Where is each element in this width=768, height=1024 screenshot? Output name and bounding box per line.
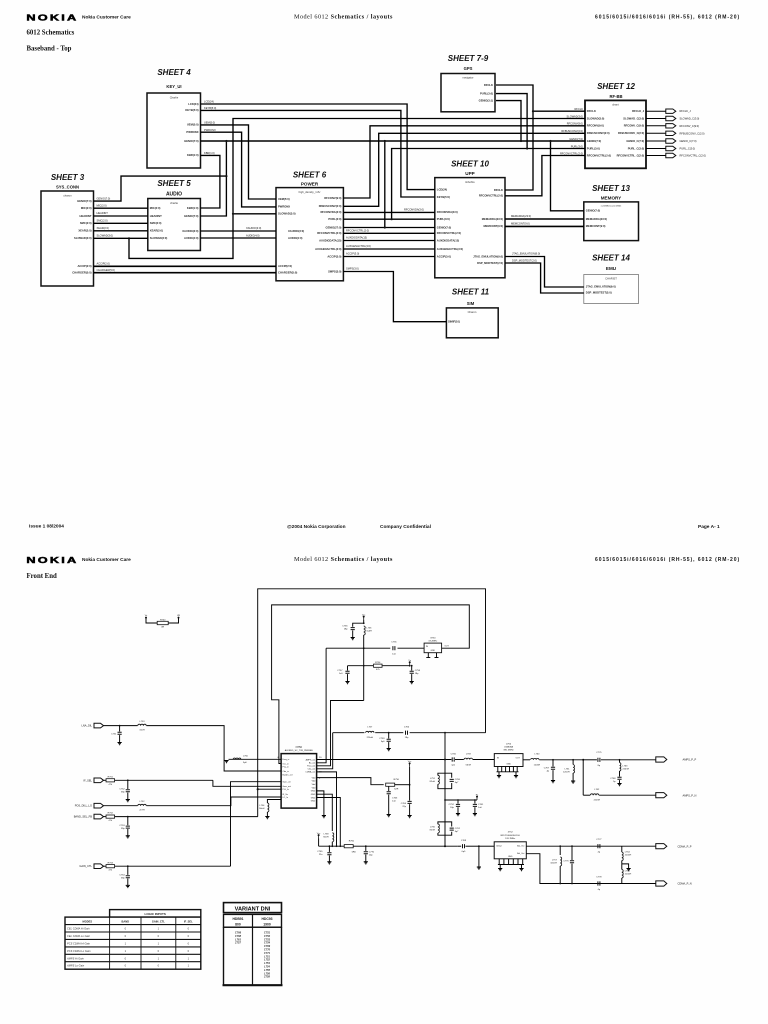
power Vx arrow xyxy=(409,663,411,666)
svg-text:PURL(3:0): PURL(3:0) xyxy=(571,144,583,148)
svg-text:GAIN_CTL: GAIN_CTL xyxy=(79,864,92,868)
svg-text:SLOWAD(3:0): SLOWAD(3:0) xyxy=(97,234,114,238)
inductor L761 shunt xyxy=(572,759,574,761)
svg-text:Company Confidential: Company Confidential xyxy=(380,524,431,530)
svg-text:Bal_Out: Bal_Out xyxy=(517,852,525,855)
svg-text:C761: C761 xyxy=(478,804,484,806)
svg-text:C768: C768 xyxy=(610,778,616,780)
svg-text:L764: L764 xyxy=(625,852,631,854)
svg-text:ACCIP(2:0): ACCIP(2:0) xyxy=(97,262,110,266)
wire SMPS POWER to SIM xyxy=(343,272,446,322)
wire GENIO to MEMORY xyxy=(551,141,584,211)
svg-text:GND: GND xyxy=(311,797,316,799)
svg-text:L755: L755 xyxy=(264,968,270,972)
wire MIC(2:0) SYS_CONN to AUDIO xyxy=(94,207,148,209)
svg-text:L760: L760 xyxy=(534,754,540,756)
svg-text:R750: R750 xyxy=(160,620,166,622)
svg-text:RFCONVCTRL(2:0): RFCONVCTRL(2:0) xyxy=(437,231,461,235)
svg-text:126.7MHz: 126.7MHz xyxy=(505,838,515,840)
svg-text:AMPS_out: AMPS_out xyxy=(306,758,316,761)
svg-text:C771: C771 xyxy=(264,951,271,955)
svg-text:GENIO_C(7:0): GENIO_C(7:0) xyxy=(626,139,644,143)
svg-text:SLOWAD(3:0): SLOWAD(3:0) xyxy=(567,114,584,118)
svg-text:UEM(5:0): UEM(5:0) xyxy=(187,123,199,127)
bus ACCIP(2:0) SYS_CONN to POWER xyxy=(94,265,277,267)
svg-text:B3572-B4609-K510: B3572-B4609-K510 xyxy=(501,835,521,837)
svg-text:SHEET 6: SHEET 6 xyxy=(293,171,327,180)
svg-text:GND: GND xyxy=(311,801,316,803)
inductor L752 2n7H xyxy=(138,804,146,805)
svg-text:GENIO(7:0): GENIO(7:0) xyxy=(586,209,600,213)
junction PURL GPS xyxy=(526,147,528,149)
block AUDIO (sheet 5) xyxy=(148,199,201,251)
connector output CDMA_P_P xyxy=(656,844,667,849)
balun L751 C760 parallel upper xyxy=(438,773,445,775)
svg-text:POWER: POWER xyxy=(301,182,319,187)
svg-text:AUDIO(4:0): AUDIO(4:0) xyxy=(288,236,302,240)
svg-text:ACCIP(3:0): ACCIP(3:0) xyxy=(437,254,451,258)
svg-text:KBR(1:0): KBR(1:0) xyxy=(187,153,199,157)
SAW filter Z752 xyxy=(494,842,526,859)
svg-text:Z758: Z758 xyxy=(263,975,270,979)
svg-text:UEM(5:0): UEM(5:0) xyxy=(204,121,215,125)
svg-text:LNA_DIL: LNA_DIL xyxy=(81,724,92,728)
svg-text:CHARGER(5:0): CHARGER(5:0) xyxy=(278,271,297,275)
svg-text:82nH: 82nH xyxy=(430,830,436,832)
resistor R750 top-left xyxy=(146,618,157,623)
wire HEADINT SYS_CONN to AUDIO xyxy=(94,215,148,217)
svg-text:LTA808A: LTA808A xyxy=(504,746,513,749)
svg-text:SIM: SIM xyxy=(467,301,475,306)
svg-text:RFBUSCONV(2:0): RFBUSCONV(2:0) xyxy=(319,204,342,208)
junction stub rail xyxy=(339,845,341,847)
wire bias rail lower xyxy=(319,845,345,847)
power Vx on balun xyxy=(476,797,478,800)
svg-text:SLOWAD(3:0): SLOWAD(3:0) xyxy=(74,236,92,240)
svg-text:GND: GND xyxy=(311,791,316,793)
svg-text:C756: C756 xyxy=(342,626,348,628)
svg-text:Cba_out: Cba_out xyxy=(308,768,316,771)
svg-text:C764: C764 xyxy=(401,803,407,805)
svg-text:C751: C751 xyxy=(111,734,117,736)
svg-text:L751: L751 xyxy=(264,954,270,958)
svg-text:HDC93: HDC93 xyxy=(261,917,272,921)
connector output RFCONV_C(9:0) xyxy=(666,124,676,128)
inductor L753b 120nH series xyxy=(531,758,539,759)
junction SLOWAD branch xyxy=(128,237,130,239)
svg-text:Charon: Charon xyxy=(468,310,477,314)
svg-text:C752: C752 xyxy=(449,804,455,806)
wire BAND_SEL_FB branch to IC xyxy=(258,788,281,790)
svg-text:CEL CDMA Lo Gain: CEL CDMA Lo Gain xyxy=(67,934,91,938)
capacitor C769 series CDMA xyxy=(458,845,462,847)
power Vcc oscillator supply xyxy=(363,617,365,620)
svg-text:XAUDIO(3:0): XAUDIO(3:0) xyxy=(288,229,304,233)
svg-text:IF_SEL: IF_SEL xyxy=(83,778,92,782)
svg-text:C751: C751 xyxy=(264,931,271,935)
svg-text:PURL_C(3:0): PURL_C(3:0) xyxy=(680,147,696,151)
svg-text:C760: C760 xyxy=(455,779,461,781)
svg-text:JTAG_EMULATION(9:0): JTAG_EMULATION(9:0) xyxy=(473,254,503,258)
svg-text:Bo_out: Bo_out xyxy=(309,762,316,765)
svg-text:120nH: 120nH xyxy=(563,772,570,774)
svg-text:RFCONVCTRL(2:0): RFCONVCTRL(2:0) xyxy=(346,228,369,232)
wire MEMADDA UPP to MEMORY xyxy=(505,218,584,220)
svg-text:Vdd: Vdd xyxy=(312,777,316,779)
wire GAIN_CTL to IC xyxy=(231,782,282,867)
svg-text:L752: L752 xyxy=(140,801,146,803)
wire CDMA balanced outputs xyxy=(526,845,655,847)
SAW filter Z750 881.5MHz xyxy=(494,754,523,767)
svg-text:XAUDIO(3:0): XAUDIO(3:0) xyxy=(246,226,261,230)
wire GND stub 1 xyxy=(317,791,324,816)
svg-text:NOKIA: NOKIA xyxy=(26,13,78,23)
svg-text:BAND_SEL_FB: BAND_SEL_FB xyxy=(74,815,93,819)
wire GENIO riser from SYS_CONN xyxy=(94,141,227,201)
wire LCD(24) KEY_UI to UPP xyxy=(201,104,435,190)
svg-text:Model 6012 Schematics / layout: Model 6012 Schematics / layouts xyxy=(294,556,393,563)
svg-text:C777: C777 xyxy=(596,839,602,841)
svg-text:KEYB(5:0): KEYB(5:0) xyxy=(437,195,450,199)
svg-text:Issue 1 08/2004: Issue 1 08/2004 xyxy=(29,524,64,530)
svg-text:Z757: Z757 xyxy=(234,941,241,945)
svg-text:GENIO_C(7:0): GENIO_C(7:0) xyxy=(680,139,697,143)
block RF-BB (sheet 12) xyxy=(585,100,646,168)
svg-text:ACCIP(2:0): ACCIP(2:0) xyxy=(77,264,91,268)
svg-text:220nH: 220nH xyxy=(623,769,630,771)
svg-text:C759: C759 xyxy=(379,738,385,740)
svg-text:RFCLK: RFCLK xyxy=(587,109,596,113)
IC N750 ALFRED_SC_TX8_PBFREE xyxy=(281,754,317,809)
wire CDMA_out to filter xyxy=(317,772,337,846)
svg-text:Guar_out: Guar_out xyxy=(283,785,292,788)
svg-text:L757: L757 xyxy=(552,860,558,862)
wire RFCONVDA(3:0) POWER to UPP xyxy=(343,211,434,213)
svg-text:PCS CDMA Hi Gain: PCS CDMA Hi Gain xyxy=(67,941,91,945)
svg-text:UPP: UPP xyxy=(465,171,474,176)
svg-text:PWRONX: PWRONX xyxy=(278,205,290,209)
svg-text:JTAG_EMULATION(9:0): JTAG_EMULATION(9:0) xyxy=(512,252,540,256)
block GPS (sheet 7-9) xyxy=(441,74,495,112)
svg-text:L754: L754 xyxy=(264,965,270,969)
svg-text:AUXDIGDATA(15): AUXDIGDATA(15) xyxy=(437,238,459,242)
svg-text:SLOWAD(3:0): SLOWAD(3:0) xyxy=(278,212,296,216)
junction AUDIO GENIO xyxy=(225,175,227,177)
wire GENIO POWER to UPP xyxy=(343,227,434,229)
wire RF-BB output GENIO_C(7:0) xyxy=(646,140,666,142)
svg-text:Nokia Customer Care: Nokia Customer Care xyxy=(82,15,131,21)
wire bias to AMPS junction xyxy=(444,732,446,734)
svg-text:XEAR(2:0): XEAR(2:0) xyxy=(78,229,91,233)
svg-text:VARIANT DNI: VARIANT DNI xyxy=(235,907,271,913)
svg-text:IF_SEL: IF_SEL xyxy=(184,920,193,924)
connector output AMPS_P_P xyxy=(656,757,667,762)
svg-text:GENIO(7:0): GENIO(7:0) xyxy=(569,137,583,141)
svg-text:220nH: 220nH xyxy=(625,855,632,857)
svg-text:SHEET 7-9: SHEET 7-9 xyxy=(448,54,489,63)
svg-text:R750: R750 xyxy=(349,841,355,843)
svg-text:RFCONVCTRL(2:0): RFCONVCTRL(2:0) xyxy=(587,153,611,157)
svg-text:C776: C776 xyxy=(563,861,569,863)
svg-text:C769: C769 xyxy=(264,944,271,948)
svg-text:Cba_in: Cba_in xyxy=(283,771,289,773)
svg-text:6015/6015i/6016/6016i (RH-55),: 6015/6015i/6016/6016i (RH-55), 6012 (RM-… xyxy=(595,557,740,563)
svg-text:GENIO(7:0): GENIO(7:0) xyxy=(184,214,198,218)
wire RFBUSCONV(2:0) POWER to RF-BB xyxy=(343,133,585,206)
svg-text:LOGIC INPUTS: LOGIC INPUTS xyxy=(145,912,166,916)
svg-text:C750: C750 xyxy=(404,726,410,728)
block SIM (sheet 11) xyxy=(446,308,498,338)
wire Xo_out feedback to oscillator xyxy=(317,648,327,763)
svg-text:RFCONV(9:0): RFCONV(9:0) xyxy=(324,196,341,200)
capacitor C766 series AMPS xyxy=(452,757,454,761)
svg-text:L756: L756 xyxy=(264,971,270,975)
wire KEYB(5:0) KEY_UI to UPP xyxy=(201,110,435,197)
wire KBR(1:0) KEY_UI to AUDIO xyxy=(200,155,220,208)
capacitor C765 shunt xyxy=(329,845,331,847)
wire PURL(3:0) POWER to UPP xyxy=(343,218,434,220)
junction Vcc feed R754 xyxy=(363,665,365,667)
svg-text:Charlie: Charlie xyxy=(170,96,179,100)
svg-text:62R: 62R xyxy=(394,789,398,791)
wire RF-BB output SLOWAD_C(3:0) xyxy=(646,118,666,120)
svg-text:GENIO(7:0): GENIO(7:0) xyxy=(437,225,451,229)
junction GENIO riser mid bottom xyxy=(384,226,386,228)
svg-text:KBR(1:0): KBR(1:0) xyxy=(187,206,199,210)
svg-text:100nH: 100nH xyxy=(550,863,557,865)
svg-text:charon: charon xyxy=(63,194,72,198)
svg-text:CHARGER(5:0): CHARGER(5:0) xyxy=(72,271,91,275)
svg-text:MEMADDA(23:0): MEMADDA(23:0) xyxy=(586,217,607,221)
wire GND stub 2 with inductor L758 xyxy=(317,794,333,831)
svg-text:800: 800 xyxy=(235,923,241,927)
wire RF-BB output RFBUSCONV_C(2:0) xyxy=(646,132,666,134)
svg-text:Osc_in: Osc_in xyxy=(283,763,289,765)
svg-text:CHARGER(5:0): CHARGER(5:0) xyxy=(97,268,115,272)
svg-text:SYS_CONN: SYS_CONN xyxy=(56,185,79,190)
svg-text:AMPS_P_P: AMPS_P_P xyxy=(683,758,697,762)
balun mid node caps xyxy=(444,799,446,801)
svg-text:L753: L753 xyxy=(140,721,146,723)
connector output RFCONVCTRL_C(2:0) xyxy=(666,153,676,157)
wire RFCONVCTRL UPP to RF-BB xyxy=(505,156,585,196)
wire RF-BB output RFCONV_C(9:0) xyxy=(646,125,666,127)
resistor R753 47k xyxy=(106,865,115,868)
capacitor C778 series xyxy=(598,881,600,885)
capacitor C753 39p shunt xyxy=(127,816,129,818)
block MEMORY (sheet 13) xyxy=(584,202,639,241)
svg-text:HEADINT: HEADINT xyxy=(97,211,109,215)
svg-text:G750: G750 xyxy=(430,638,436,640)
wire GENIO AUDIO branch xyxy=(200,176,226,216)
svg-text:PURL(3:0): PURL(3:0) xyxy=(587,146,600,150)
svg-text:MEMADDA(23:0): MEMADDA(23:0) xyxy=(511,214,531,218)
svg-text:BandC_sel: BandC_sel xyxy=(283,774,293,776)
svg-text:@2004 Nokia Corporation: @2004 Nokia Corporation xyxy=(287,524,346,530)
svg-text:2n7H: 2n7H xyxy=(139,810,145,812)
svg-text:Model 6012 Schematics / layout: Model 6012 Schematics / layouts xyxy=(294,14,393,21)
bus CHARGER(5:0) SYS_CONN to POWER xyxy=(94,272,277,274)
wire POS_DILL_LO to IC xyxy=(147,797,282,806)
wire SLOWAD(3:0) SYS_CONN to AUDIO xyxy=(94,237,148,239)
svg-text:MODES: MODES xyxy=(83,920,93,924)
svg-text:SHEET 5: SHEET 5 xyxy=(157,179,191,188)
capacitor C751b 4p shunt xyxy=(552,759,554,761)
wire GENIO riser mid xyxy=(384,141,386,228)
svg-text:PURL(3:0): PURL(3:0) xyxy=(328,217,341,221)
wire filter out xyxy=(523,759,530,761)
svg-text:RFBUSCONV_C(2:0): RFBUSCONV_C(2:0) xyxy=(618,131,644,135)
svg-text:GENIO(7:0): GENIO(7:0) xyxy=(97,196,111,200)
svg-text:Z752: Z752 xyxy=(508,832,514,834)
resistor R751 47k xyxy=(106,779,115,782)
capacitor C759 shunt on bias line xyxy=(388,732,390,734)
junction L758 rail xyxy=(331,845,333,847)
filter Z750 ground comb xyxy=(497,767,499,772)
svg-text:C757: C757 xyxy=(337,670,343,672)
svg-text:Pout_out: Pout_out xyxy=(307,765,315,768)
wire RFCLK to RF-BB xyxy=(533,110,585,112)
wire PWRONX KEY_UI to POWER xyxy=(201,132,277,207)
svg-text:SHEET 12: SHEET 12 xyxy=(597,82,635,91)
svg-text:charlie: charlie xyxy=(170,201,178,205)
bias line with L757 C759 C750 xyxy=(333,732,365,734)
svg-text:SHEET 13: SHEET 13 xyxy=(592,184,630,193)
svg-text:RFCONVCTRL_C(2:0): RFCONVCTRL_C(2:0) xyxy=(617,153,645,157)
capacitor C757 to ground xyxy=(347,666,349,671)
svg-text:AUXGENACTRL(3:0): AUXGENACTRL(3:0) xyxy=(346,244,371,248)
svg-text:120nH: 120nH xyxy=(534,764,541,766)
svg-text:XEAR(2:0): XEAR(2:0) xyxy=(97,226,110,230)
connector output AMPS_P_N xyxy=(656,793,667,798)
svg-text:C769: C769 xyxy=(461,840,467,842)
svg-text:LCD(24): LCD(24) xyxy=(437,187,447,191)
svg-text:R756: R756 xyxy=(394,779,400,781)
svg-text:POS_DILL_LO: POS_DILL_LO xyxy=(75,804,92,808)
svg-text:L763: L763 xyxy=(623,766,629,768)
svg-text:C754: C754 xyxy=(119,874,125,876)
svg-text:MEMADDA(23:0): MEMADDA(23:0) xyxy=(482,217,503,221)
svg-text:Bal_Out: Bal_Out xyxy=(517,845,525,848)
svg-text:LO_In: LO_In xyxy=(283,797,288,799)
svg-text:C762: C762 xyxy=(455,828,461,830)
svg-text:C767: C767 xyxy=(544,767,550,769)
capacitor C751 shunt xyxy=(119,725,121,727)
svg-text:CEL CDMA Hi Gain: CEL CDMA Hi Gain xyxy=(67,927,90,931)
svg-text:C766: C766 xyxy=(451,753,457,755)
svg-text:KEYB(5:0): KEYB(5:0) xyxy=(204,106,216,110)
svg-text:19.2MHz: 19.2MHz xyxy=(428,641,437,643)
svg-text:KBR(1:0): KBR(1:0) xyxy=(204,151,215,155)
wire MEMCONT UPP to MEMORY xyxy=(505,225,584,227)
svg-text:R751: R751 xyxy=(108,776,114,778)
svg-text:AMPS_P_N: AMPS_P_N xyxy=(683,793,697,797)
svg-text:GPS: GPS xyxy=(464,66,473,71)
block EMU (sheet 14) xyxy=(584,275,639,304)
wire PURL GPS branch xyxy=(496,94,527,149)
inductor L753 15nH xyxy=(138,724,146,725)
block KEY_UI (sheet 4) xyxy=(147,93,201,168)
svg-text:C778: C778 xyxy=(596,876,602,878)
junction CDMA join xyxy=(444,845,446,847)
svg-text:L765: L765 xyxy=(625,871,631,873)
wire IF_SEL to IC xyxy=(213,780,281,786)
svg-text:L759: L759 xyxy=(466,753,472,755)
svg-text:RFBUSCONV(2:0): RFBUSCONV(2:0) xyxy=(561,129,583,133)
svg-text:AUXDIGDATA(15): AUXDIGDATA(15) xyxy=(346,236,367,240)
svg-text:ram8MbitLower2Mbit: ram8MbitLower2Mbit xyxy=(601,205,622,208)
inductor L756 5u6H xyxy=(364,626,366,635)
svg-text:MEMORY: MEMORY xyxy=(601,196,622,201)
svg-text:PCS CDMA Lo Gain: PCS CDMA Lo Gain xyxy=(67,949,91,953)
capacitor C766b to ground at R750 right xyxy=(365,845,367,847)
svg-text:CDMA_P_P: CDMA_P_P xyxy=(678,844,692,848)
wire Pout_out riser to Vcc feed xyxy=(317,701,364,766)
svg-text:L757: L757 xyxy=(367,726,373,728)
svg-text:SLOWAD(3:0): SLOWAD(3:0) xyxy=(150,236,168,240)
svg-text:UEM(5:0): UEM(5:0) xyxy=(278,197,290,201)
junction GENIO riser mid top xyxy=(384,140,386,142)
wire UEM(5:0) KEY_UI to POWER xyxy=(201,125,277,199)
svg-text:15nH: 15nH xyxy=(139,729,145,731)
svg-text:AUDIO: AUDIO xyxy=(166,192,182,198)
capacitor C763 shunt xyxy=(388,786,390,791)
svg-text:RFCONVCTRL(2:0): RFCONVCTRL(2:0) xyxy=(479,194,503,198)
svg-text:Vdd: Vdd xyxy=(312,787,316,789)
balun L755 C762 parallel lower xyxy=(438,822,445,824)
wire LNA to IC xyxy=(147,726,282,771)
svg-text:C770: C770 xyxy=(264,948,271,952)
svg-text:XAUDIO(3:0): XAUDIO(3:0) xyxy=(182,229,198,233)
svg-text:GND: GND xyxy=(506,764,511,766)
svg-text:EMU: EMU xyxy=(606,266,617,271)
connector output RFCLK_J xyxy=(666,109,676,113)
svg-text:HDB91: HDB91 xyxy=(232,917,243,921)
svg-text:C755: C755 xyxy=(391,642,397,644)
svg-text:Gain_cnt: Gain_cnt xyxy=(283,781,291,784)
junction BAND_SEL_FB branch xyxy=(257,788,259,790)
capacitor C758 to ground xyxy=(411,666,413,671)
svg-text:MIC(2:0): MIC(2:0) xyxy=(97,203,107,207)
wire RF-BB output RFCLK_J xyxy=(646,110,666,112)
svg-text:C763: C763 xyxy=(392,798,398,800)
power Vcc lower cluster xyxy=(318,836,320,839)
svg-text:NOKIA: NOKIA xyxy=(26,556,78,566)
svg-text:GENIO(3:1): GENIO(3:1) xyxy=(479,98,493,102)
junction AMPS bias xyxy=(444,759,446,761)
svg-text:DSP_MODTEST(2:0): DSP_MODTEST(2:0) xyxy=(477,261,503,265)
wire AUXDIGDATA POWER to UPP xyxy=(343,240,434,242)
svg-text:SMC(2:0): SMC(2:0) xyxy=(150,221,162,225)
capacitor C756 18p xyxy=(353,623,364,627)
svg-text:AUXGENACTRL(3:0): AUXGENACTRL(3:0) xyxy=(315,247,341,251)
svg-text:chant: chant xyxy=(612,102,619,106)
wire ACCIP POWER to UPP xyxy=(343,256,434,258)
svg-text:GND: GND xyxy=(311,794,316,796)
svg-text:56nH: 56nH xyxy=(466,764,472,766)
svg-text:56nH: 56nH xyxy=(259,808,265,810)
svg-text:RFCONVDA(3:0): RFCONVDA(3:0) xyxy=(404,207,424,211)
svg-text:AUDIO(4:0): AUDIO(4:0) xyxy=(246,233,260,237)
wire Cba_out riser to bias line xyxy=(317,733,333,769)
svg-text:PURL_C(3:0): PURL_C(3:0) xyxy=(628,146,645,150)
wire SLOWAD riser to POWER and RF-BB xyxy=(129,119,585,259)
wire AMPS split xyxy=(582,759,584,761)
inductor L759 series AMPS xyxy=(464,758,472,759)
svg-text:ACCIP(2:0): ACCIP(2:0) xyxy=(278,264,292,268)
svg-text:MEMCONT(9:0): MEMCONT(9:0) xyxy=(483,224,503,228)
svg-text:navigator: navigator xyxy=(462,76,473,80)
